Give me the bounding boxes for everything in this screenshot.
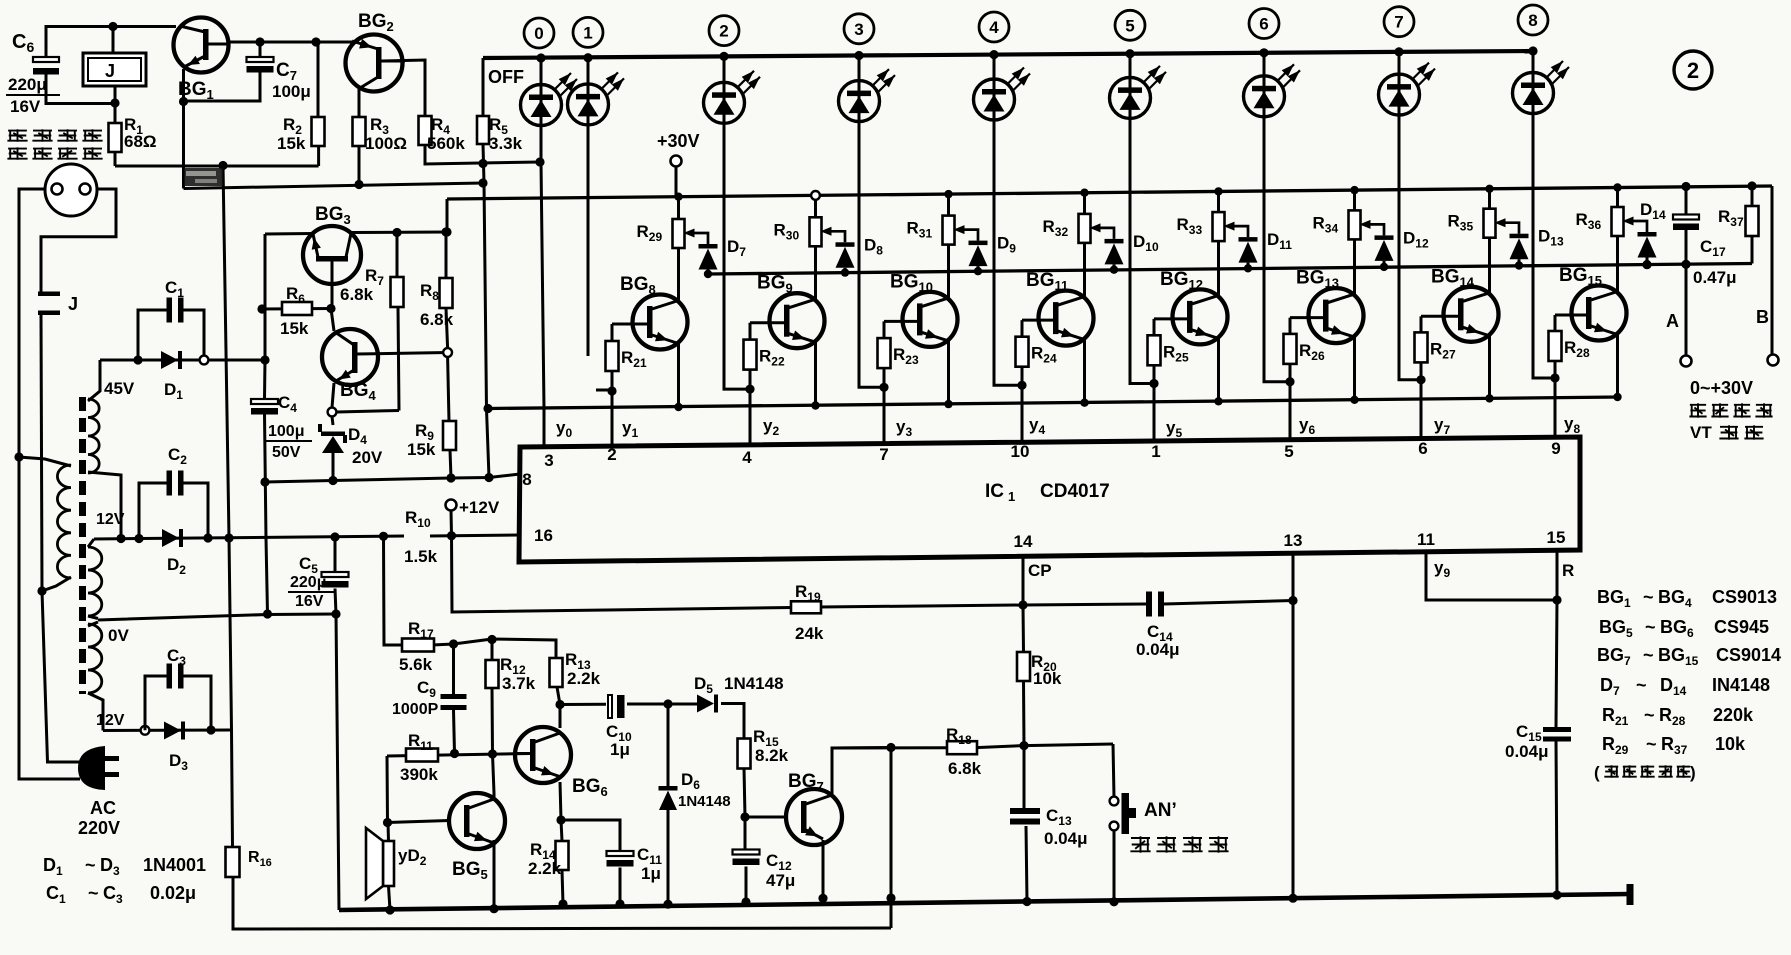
- svg-text:D8: D8: [864, 235, 883, 257]
- svg-text:0.04μ: 0.04μ: [1505, 742, 1549, 761]
- svg-text:R11: R11: [408, 731, 433, 753]
- svg-text:BG1: BG1: [1597, 587, 1631, 610]
- svg-text:R37: R37: [1661, 734, 1688, 757]
- svg-text:50V: 50V: [272, 444, 301, 461]
- svg-text:R18: R18: [946, 725, 972, 747]
- svg-text:R16: R16: [248, 849, 272, 869]
- svg-text:0~+30V: 0~+30V: [1690, 378, 1753, 398]
- svg-text:390k: 390k: [400, 765, 438, 784]
- svg-text:C2: C2: [168, 445, 187, 467]
- svg-text:1N4148: 1N4148: [724, 674, 784, 693]
- svg-text:R25: R25: [1163, 342, 1189, 364]
- svg-text:12V: 12V: [96, 511, 125, 528]
- svg-text:~: ~: [1636, 675, 1647, 695]
- svg-text:BG7: BG7: [1597, 645, 1631, 668]
- svg-text:BG1: BG1: [178, 79, 214, 102]
- svg-text:2.2k: 2.2k: [528, 859, 562, 878]
- svg-text:2: 2: [719, 22, 728, 41]
- svg-text:1: 1: [1151, 442, 1160, 461]
- svg-text:C12: C12: [766, 851, 792, 873]
- svg-text:BG14: BG14: [1431, 266, 1475, 289]
- svg-text:(: (: [1594, 763, 1600, 782]
- svg-text:yD2: yD2: [398, 846, 427, 868]
- svg-text:BG5: BG5: [452, 859, 488, 882]
- svg-text:C3: C3: [103, 883, 123, 906]
- svg-text:D6: D6: [681, 770, 700, 792]
- svg-text:BG11: BG11: [1026, 270, 1068, 293]
- svg-text:0.47μ: 0.47μ: [1693, 268, 1737, 287]
- svg-text:8.2k: 8.2k: [755, 746, 789, 765]
- svg-text:y8: y8: [1564, 414, 1580, 436]
- svg-text:9: 9: [1551, 439, 1560, 458]
- svg-text:D7: D7: [1600, 675, 1620, 698]
- svg-text:BG4: BG4: [340, 380, 377, 403]
- svg-text:R37: R37: [1718, 207, 1744, 229]
- svg-text:8: 8: [522, 470, 531, 489]
- svg-text:VT: VT: [1690, 423, 1712, 442]
- svg-text:R31: R31: [907, 219, 933, 241]
- svg-text:): ): [1690, 763, 1696, 782]
- svg-text:16: 16: [534, 526, 553, 545]
- svg-text:BG13: BG13: [1296, 268, 1339, 291]
- svg-text:R19: R19: [795, 582, 821, 604]
- svg-text:y0: y0: [556, 418, 572, 440]
- svg-text:IC: IC: [985, 481, 1004, 502]
- svg-text:D11: D11: [1267, 230, 1292, 252]
- svg-text:R34: R34: [1313, 213, 1339, 235]
- svg-text:4: 4: [989, 18, 999, 37]
- svg-text:100μ: 100μ: [272, 82, 311, 101]
- svg-text:BG2: BG2: [358, 11, 394, 34]
- svg-text:C9: C9: [417, 678, 436, 700]
- svg-text:0: 0: [534, 24, 543, 43]
- svg-text:0V: 0V: [108, 626, 129, 645]
- svg-text:D4: D4: [348, 425, 367, 447]
- svg-text:BG4: BG4: [1658, 587, 1692, 610]
- svg-text:R23: R23: [893, 345, 919, 367]
- svg-text:C4: C4: [278, 393, 297, 415]
- svg-text:5: 5: [1284, 442, 1293, 461]
- svg-text:1000P: 1000P: [392, 701, 439, 718]
- svg-text:7: 7: [1394, 13, 1403, 32]
- svg-text:J: J: [105, 61, 115, 81]
- svg-text:D1: D1: [43, 855, 63, 878]
- svg-text:0.04μ: 0.04μ: [1044, 829, 1088, 848]
- svg-text:4: 4: [742, 448, 752, 467]
- svg-text:~: ~: [85, 855, 96, 875]
- svg-text:y7: y7: [1434, 415, 1450, 437]
- svg-text:~: ~: [1646, 734, 1657, 754]
- svg-text:C13: C13: [1046, 806, 1072, 828]
- svg-text:BG5: BG5: [1599, 617, 1633, 640]
- svg-text:C15: C15: [1516, 722, 1542, 744]
- svg-text:12V: 12V: [96, 712, 125, 729]
- svg-text:+12V: +12V: [459, 498, 500, 517]
- svg-text:C6: C6: [12, 31, 34, 55]
- svg-text:16V: 16V: [10, 97, 41, 116]
- svg-text:10: 10: [1011, 442, 1030, 461]
- svg-text:BG8: BG8: [620, 274, 656, 297]
- svg-text:220V: 220V: [78, 818, 120, 838]
- svg-text:R36: R36: [1576, 210, 1602, 232]
- svg-text:R21: R21: [1602, 705, 1629, 728]
- svg-text:y5: y5: [1166, 418, 1182, 440]
- svg-text:5.6k: 5.6k: [399, 655, 433, 674]
- svg-text:CD4017: CD4017: [1040, 481, 1110, 502]
- svg-text:R35: R35: [1448, 212, 1474, 234]
- svg-text:CP: CP: [1028, 561, 1052, 580]
- svg-text:BG15: BG15: [1559, 265, 1602, 288]
- svg-text:10k: 10k: [1033, 669, 1062, 688]
- svg-text:BG15: BG15: [1658, 645, 1699, 668]
- svg-text:CS9014: CS9014: [1716, 645, 1781, 665]
- svg-text:y4: y4: [1029, 415, 1045, 437]
- svg-text:+30V: +30V: [657, 131, 700, 151]
- svg-text:6: 6: [1418, 439, 1427, 458]
- svg-text:0.04μ: 0.04μ: [1136, 640, 1180, 659]
- svg-text:D3: D3: [169, 751, 188, 773]
- svg-text:1N4001: 1N4001: [143, 855, 206, 875]
- svg-text:20V: 20V: [352, 448, 383, 467]
- svg-text:10k: 10k: [1715, 734, 1746, 754]
- svg-text:220k: 220k: [1713, 705, 1754, 725]
- svg-text:R30: R30: [774, 220, 800, 242]
- svg-text:R28: R28: [1564, 338, 1590, 360]
- svg-text:1.5k: 1.5k: [404, 547, 438, 566]
- svg-text:~: ~: [88, 883, 99, 903]
- svg-text:R21: R21: [621, 348, 647, 370]
- svg-text:1N4148: 1N4148: [678, 793, 731, 810]
- svg-text:15k: 15k: [277, 134, 306, 153]
- svg-text:15: 15: [1547, 528, 1566, 547]
- svg-text:D3: D3: [100, 855, 120, 878]
- svg-text:3: 3: [544, 451, 553, 470]
- svg-text:6.8k: 6.8k: [340, 285, 374, 304]
- svg-text:24k: 24k: [795, 624, 824, 643]
- svg-text:C3: C3: [167, 646, 186, 668]
- svg-text:2: 2: [607, 445, 616, 464]
- svg-text:y2: y2: [763, 416, 779, 438]
- svg-text:D12: D12: [1403, 228, 1429, 250]
- svg-text:y3: y3: [896, 417, 912, 439]
- svg-text:R8: R8: [420, 281, 439, 303]
- svg-text:R22: R22: [759, 347, 785, 369]
- svg-text:R29: R29: [637, 222, 663, 244]
- svg-text:BG9: BG9: [757, 273, 793, 296]
- svg-text:R32: R32: [1043, 217, 1069, 239]
- svg-text:~: ~: [1643, 587, 1654, 607]
- svg-text:BG3: BG3: [315, 204, 351, 227]
- svg-text:15k: 15k: [407, 440, 436, 459]
- svg-text:AC: AC: [90, 798, 116, 818]
- svg-text:1μ: 1μ: [641, 864, 661, 883]
- svg-text:2.2k: 2.2k: [567, 669, 601, 688]
- svg-text:R6: R6: [286, 284, 305, 306]
- svg-text:R28: R28: [1659, 705, 1686, 728]
- svg-text:C5: C5: [299, 554, 318, 576]
- svg-text:A: A: [1666, 311, 1679, 331]
- svg-text:D14: D14: [1640, 200, 1666, 222]
- svg-text:0.02μ: 0.02μ: [150, 883, 196, 903]
- svg-text:J: J: [68, 294, 78, 314]
- svg-text:C17: C17: [1700, 237, 1726, 259]
- svg-text:R27: R27: [1430, 339, 1456, 361]
- svg-text:B: B: [1756, 307, 1769, 327]
- svg-text:220μ: 220μ: [8, 75, 47, 94]
- svg-text:D5: D5: [694, 674, 713, 696]
- svg-text:3.3k: 3.3k: [489, 134, 523, 153]
- svg-text:~: ~: [1643, 645, 1654, 665]
- svg-text:15k: 15k: [280, 319, 309, 338]
- svg-text:560k: 560k: [427, 134, 465, 153]
- svg-text:D9: D9: [997, 234, 1016, 256]
- svg-text:1: 1: [583, 23, 592, 42]
- svg-text:R33: R33: [1177, 215, 1203, 237]
- svg-text:C7: C7: [276, 60, 297, 83]
- svg-text:8: 8: [1528, 11, 1537, 30]
- svg-text:~: ~: [1645, 617, 1656, 637]
- svg-text:C1: C1: [46, 883, 66, 906]
- svg-text:y9: y9: [1434, 558, 1450, 580]
- svg-text:6: 6: [1259, 15, 1268, 34]
- svg-text:3.7k: 3.7k: [502, 674, 536, 693]
- svg-text:16V: 16V: [295, 593, 324, 610]
- svg-text:IN4148: IN4148: [1712, 675, 1770, 695]
- svg-text:13: 13: [1284, 531, 1303, 550]
- svg-text:100μ: 100μ: [268, 423, 304, 440]
- svg-text:D2: D2: [167, 555, 186, 577]
- svg-text:D1: D1: [164, 380, 183, 402]
- svg-text:68Ω: 68Ω: [124, 132, 157, 151]
- svg-text:6.8k: 6.8k: [948, 759, 982, 778]
- svg-text:R17: R17: [408, 619, 434, 641]
- svg-text:45V: 45V: [104, 379, 135, 398]
- svg-text:47μ: 47μ: [766, 871, 795, 890]
- svg-text:3: 3: [854, 20, 863, 39]
- svg-text:OFF: OFF: [488, 67, 524, 87]
- svg-text:CS9013: CS9013: [1712, 587, 1777, 607]
- svg-text:7: 7: [879, 445, 888, 464]
- svg-text:R: R: [1562, 561, 1574, 580]
- svg-text:R26: R26: [1299, 341, 1325, 363]
- svg-text:220μ: 220μ: [290, 574, 326, 591]
- svg-text:1μ: 1μ: [610, 740, 630, 759]
- svg-text:C1: C1: [165, 278, 184, 300]
- svg-text:AN’: AN’: [1144, 800, 1177, 821]
- svg-text:1: 1: [1008, 489, 1015, 504]
- svg-text:BG6: BG6: [572, 776, 608, 799]
- svg-text:D14: D14: [1660, 675, 1687, 698]
- svg-text:R10: R10: [405, 508, 431, 530]
- svg-text:D13: D13: [1538, 227, 1564, 249]
- svg-text:y6: y6: [1299, 415, 1315, 437]
- svg-text:BG10: BG10: [890, 271, 933, 294]
- svg-text:14: 14: [1014, 532, 1033, 551]
- svg-text:y1: y1: [622, 418, 638, 440]
- svg-text:100Ω: 100Ω: [365, 134, 407, 153]
- svg-text:CS945: CS945: [1714, 617, 1769, 637]
- svg-text:R24: R24: [1031, 344, 1057, 366]
- svg-text:11: 11: [1417, 530, 1435, 549]
- svg-text:D7: D7: [727, 237, 746, 259]
- svg-text:BG12: BG12: [1160, 269, 1203, 292]
- svg-text:6.8k: 6.8k: [420, 310, 454, 329]
- svg-text:BG6: BG6: [1660, 617, 1694, 640]
- svg-text:~: ~: [1644, 705, 1655, 725]
- svg-text:2: 2: [1687, 58, 1699, 83]
- svg-text:D10: D10: [1133, 232, 1159, 254]
- svg-text:R29: R29: [1602, 734, 1629, 757]
- svg-text:BG7: BG7: [788, 771, 824, 794]
- svg-text:5: 5: [1125, 16, 1134, 35]
